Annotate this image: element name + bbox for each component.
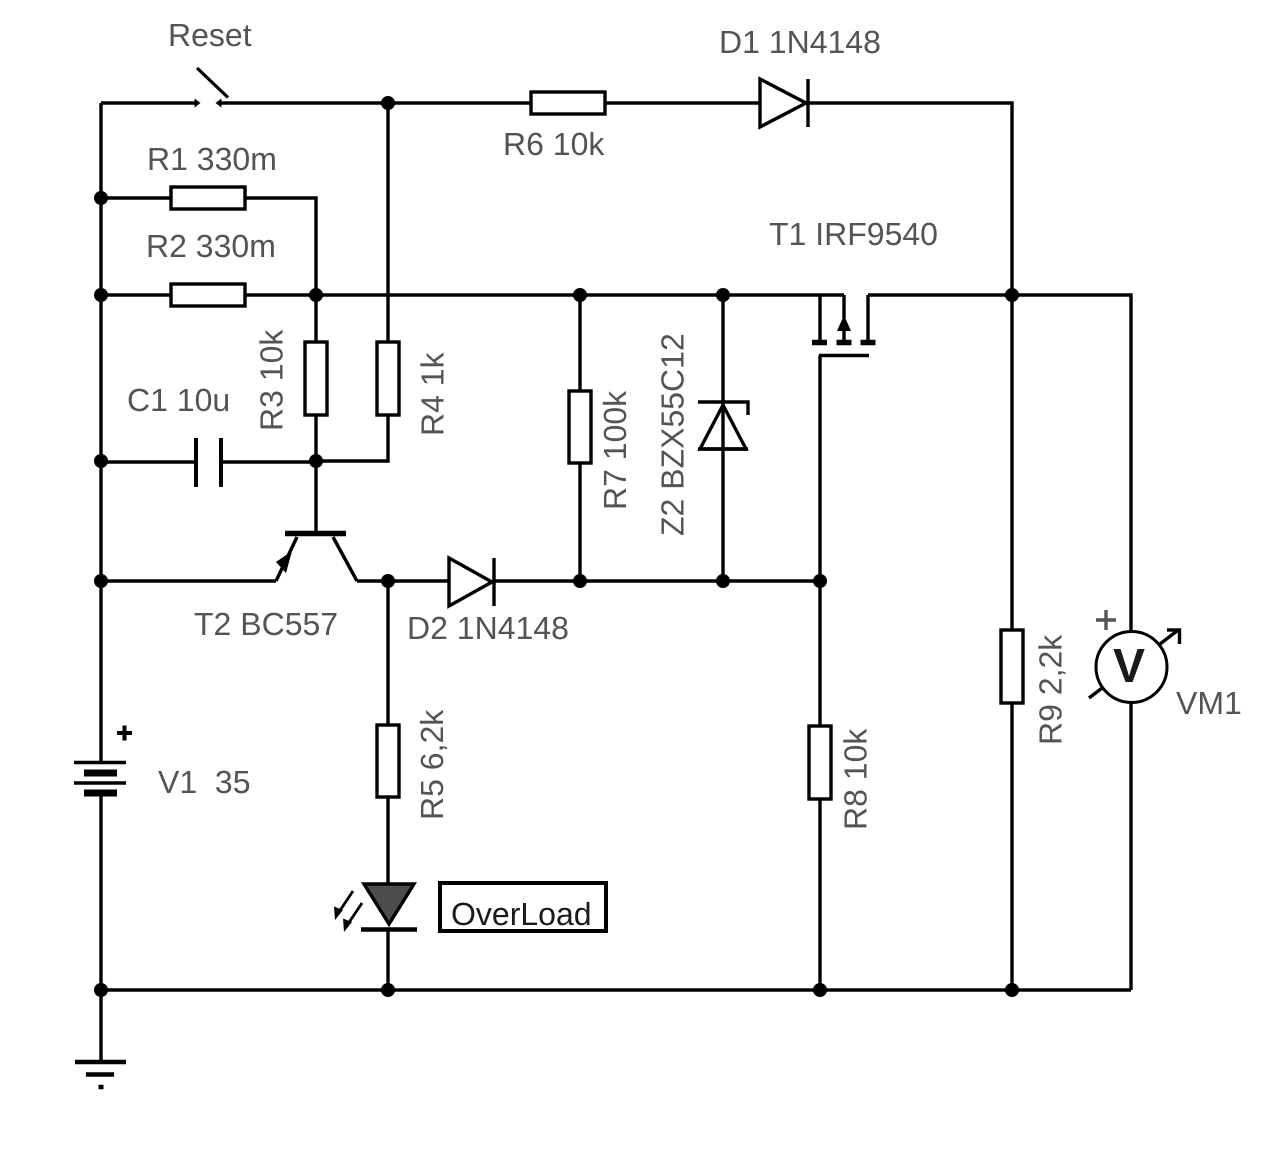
LED light arrow 2 [348, 903, 362, 924]
svg-text:R3 10k: R3 10k [254, 329, 290, 431]
transistor T2 emitter arrow [276, 551, 292, 573]
resistor R9 [1001, 630, 1023, 703]
wire C1 left [101, 460, 196, 463]
node dot emitter rail [94, 574, 108, 588]
resistor R2 [171, 284, 245, 306]
wire R2 left [101, 293, 171, 296]
zener Z2 triangle [700, 405, 746, 449]
wire node to VM branch [1012, 295, 1131, 632]
diode D2 [449, 558, 492, 606]
wire Z2 vertical [721, 295, 724, 581]
node dot R3 top [309, 288, 323, 302]
wire D1 to right corner [808, 103, 1012, 295]
LED cathode bar [361, 927, 417, 932]
transistor T2 emitter [276, 537, 297, 581]
svg-text:R2 330m: R2 330m [146, 228, 276, 264]
svg-text:R8 10k: R8 10k [838, 728, 874, 830]
switch Reset left contact [195, 99, 201, 108]
svg-text:R7 100k: R7 100k [597, 390, 633, 510]
resistor R8 [809, 726, 831, 799]
svg-text:C1 10u: C1 10u [127, 382, 230, 418]
node dot left R2 [94, 288, 108, 302]
wire T2 base lead [314, 461, 317, 531]
transistor T1 source bar [812, 340, 827, 346]
transistor T1 bulk arrow [837, 315, 851, 331]
node dot Z2 bottom [716, 574, 730, 588]
wire emitter row [101, 579, 276, 582]
wire R7 bottom lead [578, 463, 581, 581]
node dot drain R9 [1005, 288, 1019, 302]
wire R3 vertical top [314, 295, 317, 342]
wire battery to bottom rail [99, 796, 102, 990]
wire mid rail R2 to mosfet [245, 293, 844, 296]
wire C1 right [221, 460, 316, 463]
voltmeter VM1 arrow line [1089, 631, 1177, 698]
node dot gate R8 [813, 574, 827, 588]
wire top rail middle [221, 101, 531, 104]
wire left rail upper [99, 103, 102, 762]
svg-text:D1 1N4148: D1 1N4148 [719, 24, 881, 60]
wire R5 top lead [386, 581, 389, 725]
svg-text:V1 35: V1 35 [158, 764, 251, 800]
transistor T2 base bar [285, 531, 346, 537]
resistor R7 [569, 391, 591, 463]
svg-text:R5 6,2k: R5 6,2k [414, 709, 450, 820]
wire R8 bottom lead [818, 799, 821, 990]
node dot bottom left [94, 983, 108, 997]
resistor R3 [305, 342, 327, 415]
wire bottom rail [101, 988, 1131, 991]
zener Z2 cathode bar [698, 402, 748, 415]
wire T1 gate down [818, 356, 821, 582]
wire R3 bottom [314, 415, 317, 461]
wire R7 top lead [578, 295, 581, 391]
node dot Z2 top [716, 288, 730, 302]
node dot R8 bottom [813, 983, 827, 997]
svg-text:Z2 BZX55C12: Z2 BZX55C12 [655, 333, 691, 536]
resistor R5 [377, 725, 399, 797]
wire collector to D2 [357, 579, 449, 582]
resistor R4 [377, 342, 399, 415]
node dot left R1 [94, 191, 108, 205]
wire LED to bottom rail [386, 931, 389, 990]
voltmeter VM1 plus [1096, 618, 1116, 621]
svg-text:R1 330m: R1 330m [147, 141, 277, 177]
wire R9 bottom lead [1010, 703, 1013, 990]
svg-text:R4 1k: R4 1k [415, 351, 451, 436]
wire T1 drain to node [868, 293, 1012, 296]
battery V1 plus sign [117, 731, 132, 735]
node dot R9 bottom [1005, 983, 1019, 997]
node junction at R4 top [381, 96, 395, 110]
node dot R7 bottom [573, 574, 587, 588]
wire R1 left [101, 196, 171, 199]
capacitor C1 [194, 438, 198, 487]
voltmeter VM1 arrowhead [1167, 628, 1181, 631]
resistor R1 [171, 187, 245, 209]
LED light arrow 1 [339, 891, 353, 912]
transistor T1 gate plate [819, 354, 869, 357]
node dot C1 right [309, 454, 323, 468]
svg-text:VM1: VM1 [1176, 685, 1242, 721]
wire R1 right down [245, 198, 316, 295]
svg-text:OverLoad: OverLoad [451, 896, 592, 932]
wire top rail left segment [101, 101, 195, 104]
ground lead [99, 990, 102, 1062]
wire VM1 to bottom rail [1129, 703, 1132, 991]
svg-text:Reset: Reset [168, 17, 252, 53]
svg-text:T2 BC557: T2 BC557 [194, 606, 338, 642]
LED triangle [364, 884, 414, 924]
diode D1 [760, 79, 806, 127]
transistor T2 collector [333, 537, 357, 581]
switch Reset right contact [216, 99, 222, 108]
transistor T1 bulk bar [837, 340, 852, 346]
node dot collector R5 [381, 574, 395, 588]
ground [75, 1060, 126, 1065]
resistor R6 [531, 92, 605, 114]
node dot LED bottom [381, 983, 395, 997]
svg-text:T1 IRF9540: T1 IRF9540 [769, 216, 938, 252]
voltmeter VM1 circle [1096, 632, 1167, 703]
svg-text:R6 10k: R6 10k [503, 126, 605, 162]
node dot C1 left [94, 454, 108, 468]
label box OverLoad [440, 883, 606, 931]
wire R4 bottom [316, 415, 388, 461]
transistor T1 drain bar [861, 340, 876, 346]
svg-text:R9 2,2k: R9 2,2k [1033, 634, 1069, 745]
svg-text:V: V [1113, 640, 1145, 693]
transistor T1 source stub [818, 295, 821, 341]
wire R6 to D1 [605, 101, 760, 104]
wire D2 to gate row [494, 579, 820, 582]
transistor T1 drain stub [866, 295, 869, 341]
wire R5 to LED [386, 797, 389, 884]
node dot R7 top [573, 288, 587, 302]
wire R8 top lead [818, 581, 821, 726]
transistor T1 bulk stub [842, 295, 845, 318]
battery V1 [74, 761, 126, 764]
switch Reset lever [197, 68, 228, 98]
wire R9 top lead [1010, 295, 1013, 630]
wire R4 vertical [386, 103, 389, 342]
svg-text:D2 1N4148: D2 1N4148 [407, 610, 569, 646]
